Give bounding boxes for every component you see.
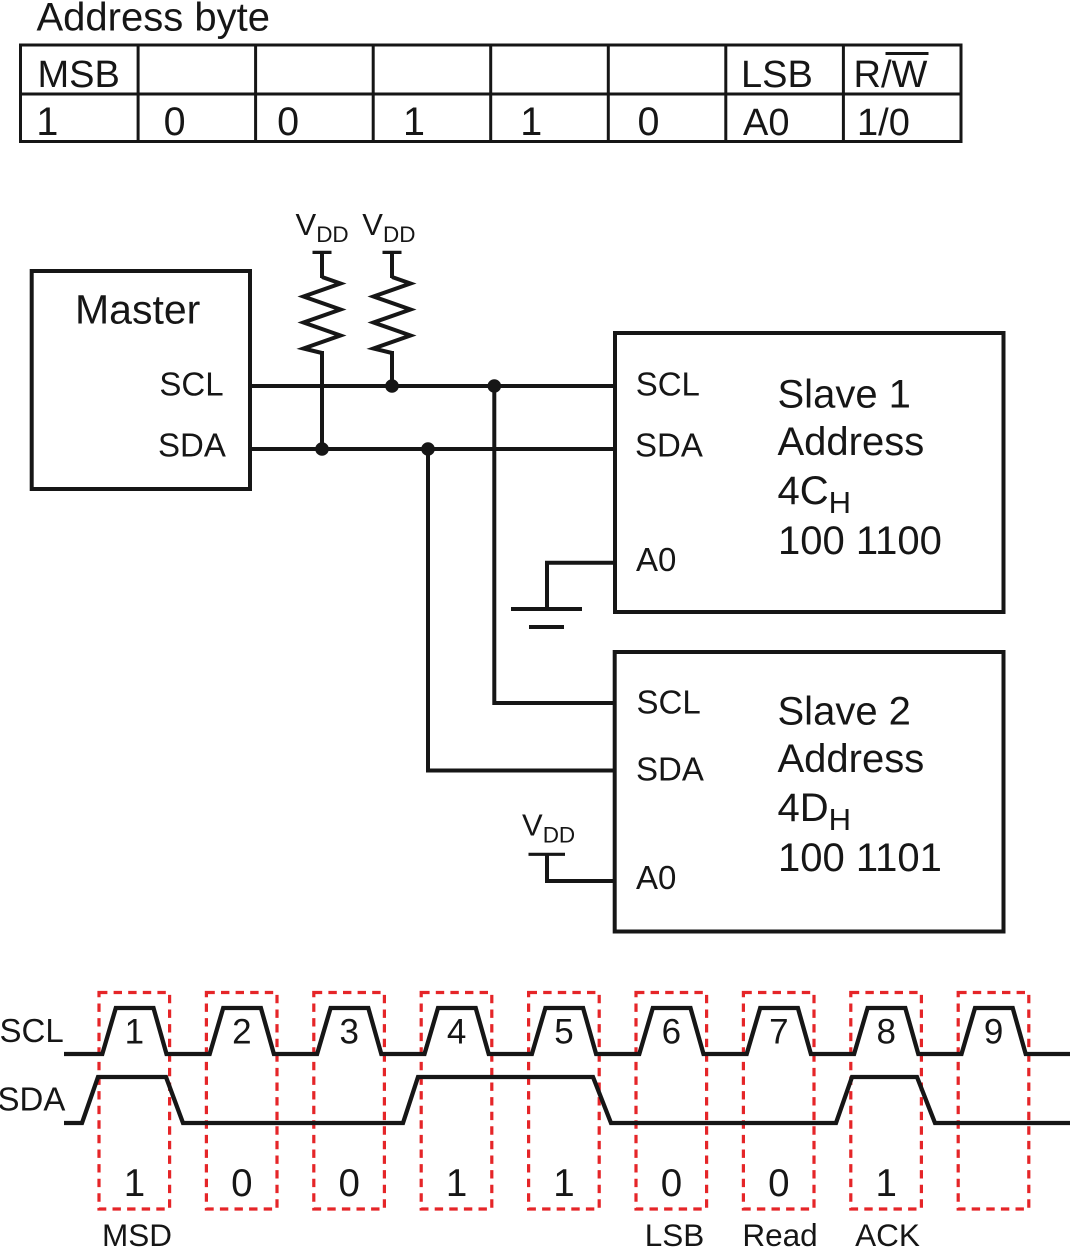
svg-text:1: 1 [553,1162,574,1205]
svg-text:A0: A0 [636,541,676,578]
svg-text:100 1100: 100 1100 [778,519,942,563]
svg-text:100 1101: 100 1101 [778,836,942,880]
svg-text:MSB: MSB [38,54,120,96]
svg-text:1: 1 [125,1013,144,1052]
svg-text:Master: Master [75,286,200,332]
svg-text:0: 0 [277,100,299,144]
svg-text:Slave 1: Slave 1 [778,372,911,416]
svg-text:SCL: SCL [159,366,223,403]
svg-text:0: 0 [338,1162,359,1205]
svg-text:6: 6 [662,1013,681,1052]
svg-text:0: 0 [768,1162,789,1205]
svg-text:A0: A0 [743,102,789,144]
svg-text:SCL: SCL [637,683,701,720]
svg-text:5: 5 [554,1013,573,1052]
svg-text:A0: A0 [636,859,676,896]
svg-text:9: 9 [984,1013,1003,1052]
svg-text:SCL: SCL [636,365,700,402]
svg-text:Read: Read [742,1217,817,1247]
svg-text:SDA: SDA [636,751,704,788]
svg-text:8: 8 [876,1013,895,1052]
svg-text:SDA: SDA [158,427,226,464]
svg-text:7: 7 [769,1013,788,1052]
svg-text:SCL: SCL [0,1012,64,1049]
svg-text:LSB: LSB [645,1217,705,1247]
svg-text:1: 1 [875,1162,896,1205]
svg-text:Address: Address [778,420,925,464]
svg-text:1: 1 [520,100,542,144]
svg-text:0: 0 [638,100,660,144]
svg-text:0: 0 [231,1162,252,1205]
svg-text:Address: Address [778,737,925,781]
svg-text:Address byte: Address byte [37,0,270,40]
svg-text:3: 3 [339,1013,358,1052]
svg-text:SDA: SDA [0,1081,65,1118]
svg-text:Slave 2: Slave 2 [778,689,911,733]
svg-text:0: 0 [661,1162,682,1205]
svg-text:1: 1 [124,1162,145,1205]
svg-text:SDA: SDA [635,427,703,464]
svg-text:1: 1 [36,100,58,144]
svg-text:R/W: R/W [854,54,928,96]
svg-text:0: 0 [164,100,186,144]
svg-text:LSB: LSB [741,54,813,96]
svg-text:MSD: MSD [102,1217,172,1247]
svg-text:2: 2 [232,1013,251,1052]
svg-text:4: 4 [447,1013,466,1052]
svg-text:ACK: ACK [855,1217,920,1247]
svg-text:1/0: 1/0 [857,102,910,144]
svg-text:1: 1 [403,100,425,144]
svg-text:1: 1 [446,1162,467,1205]
